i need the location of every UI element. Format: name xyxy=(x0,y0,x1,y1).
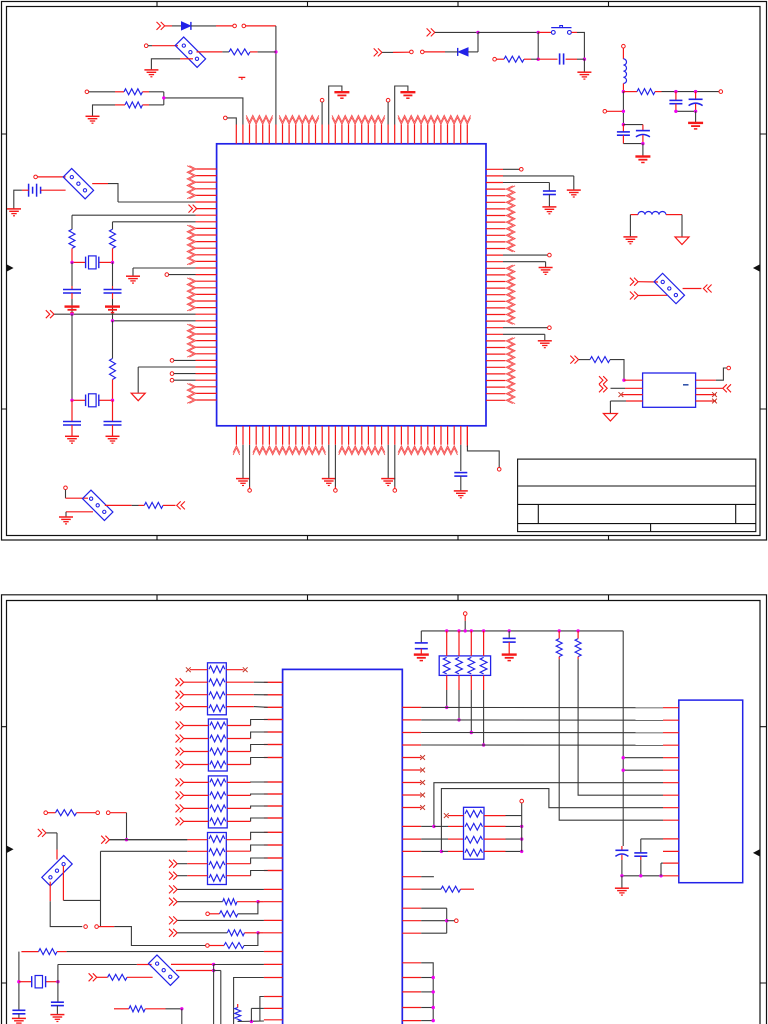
ground G20 xyxy=(59,516,73,518)
capacitor C9 + ground G29 xyxy=(51,1001,64,1003)
RP4 output jog wires xyxy=(226,839,250,841)
port circle P20 (power) xyxy=(463,612,467,616)
U4 pin stubs xyxy=(663,708,679,876)
U2 left pin 4 to triangle ground xyxy=(626,400,643,402)
port circle pair R13 net xyxy=(96,811,100,815)
vertical wire row-851 to J4 net xyxy=(100,851,102,926)
resistor R1 xyxy=(115,91,124,93)
port circle P4 (jumper J1 input) xyxy=(144,44,148,48)
resistor R3 (crystal upper left) xyxy=(71,215,73,229)
port + wire row 889.5 xyxy=(169,885,177,893)
wire + ground G9 U1 right row 2 xyxy=(503,175,574,177)
jumper J2 (tilted) xyxy=(654,273,684,303)
RP5 row1 nc xyxy=(448,815,464,817)
wire row 926.6 to corner xyxy=(99,926,115,928)
junction nodes G,H xyxy=(674,90,677,93)
vertical node C to resistor row xyxy=(537,32,539,59)
port circle on U1 left row 30 xyxy=(170,359,174,363)
wire J5 second lead corner down xyxy=(214,970,221,972)
inductor L2 with grounds (mid right) xyxy=(630,214,638,216)
port circle P8 (inductor L1 top) xyxy=(622,44,626,48)
wire P12 down to J3 xyxy=(65,490,67,499)
jumper J4 (tilted) xyxy=(42,855,72,885)
J4 second lead xyxy=(62,866,64,900)
U2 left pin 2 xyxy=(611,387,626,389)
wire P5 to node B xyxy=(435,31,478,33)
jumper J1 (tilted) xyxy=(175,37,205,67)
resistor R2 xyxy=(115,104,125,106)
jumper J0 (tilted, battery) xyxy=(63,168,93,198)
U3 right stub row 876.7 xyxy=(421,876,434,878)
port circle below U1 (right pair) xyxy=(394,445,396,487)
sheet 2 outer border frame xyxy=(2,595,767,1024)
wire C1-C2 bottoms xyxy=(676,110,696,112)
port circle + resistor R13 row xyxy=(44,811,48,815)
port + resistor R15 row 901.7 xyxy=(169,898,177,906)
vertical wire down to U1 top pin 7 xyxy=(275,26,277,125)
capacitor C18 + ground G24 xyxy=(112,400,114,421)
resistor R19 + long wire row 951.5 xyxy=(21,951,38,953)
wire to C4 branch xyxy=(623,124,643,126)
ground G17 xyxy=(623,236,637,238)
wire J2 to port xyxy=(683,288,702,290)
RP2 output jog wires xyxy=(227,725,250,727)
port P6 chevron (D2 left) xyxy=(374,48,382,56)
wire J0 out to corner xyxy=(92,183,108,185)
triangle ground G19 xyxy=(603,414,617,422)
wire R7 to port circle xyxy=(662,91,720,93)
vertical from R22 down xyxy=(181,1009,183,1024)
wires to connector rows 5-6 xyxy=(623,757,663,759)
ground G21 (thick) xyxy=(65,305,80,307)
crystal Y2 xyxy=(72,399,86,401)
wire R8 elbow down xyxy=(610,360,624,381)
resistor R10 xyxy=(558,631,560,639)
sheet 1 outer border frame xyxy=(2,2,767,541)
port circle (row 945.5) xyxy=(206,944,210,948)
junction node B xyxy=(476,31,479,34)
wire J1 lower terminal to ground xyxy=(180,58,193,60)
resistor R6 xyxy=(496,58,504,60)
ground G16 xyxy=(642,144,644,156)
diode D2 xyxy=(458,48,468,56)
U2 left pin 3 (nc) xyxy=(622,394,643,396)
U2 right pin 4 (nc) xyxy=(696,400,716,402)
port circle pair on D2 net xyxy=(421,50,425,54)
bottom wire row 1021.5 xyxy=(238,1020,264,1023)
J4 lower lead xyxy=(49,882,51,902)
circle + resistor R18 row 945.5 xyxy=(209,945,224,947)
ground G4 below U1 xyxy=(328,445,330,479)
capacitor C3 xyxy=(622,125,624,132)
ground G22 (thick) xyxy=(105,305,120,307)
R11 wire down to connector row xyxy=(578,659,663,795)
U2 right pin 3 (nc) xyxy=(696,394,716,396)
junction node M xyxy=(641,142,644,145)
port circle on U1 left row 33 xyxy=(170,378,174,382)
port + wire row 920.4 xyxy=(169,916,177,924)
title block xyxy=(518,459,756,531)
resistor R4 (crystal upper right) xyxy=(112,222,114,230)
resistor R22 (bottom mid) xyxy=(114,1008,129,1010)
circle + resistor R16 row 913.8 xyxy=(206,912,210,916)
port P21 chevron xyxy=(101,836,109,844)
wire R6 to node E xyxy=(531,58,538,60)
resistor R9 xyxy=(144,502,163,508)
port chevron on U1 left pin row 7 xyxy=(189,205,197,213)
junction crystal Y1 nodes xyxy=(70,261,73,264)
node vertical R1-R2 xyxy=(163,92,165,105)
connector U4 body xyxy=(679,700,743,883)
U3 right nc x-marks xyxy=(420,755,425,760)
capacitor C12 below U1 xyxy=(460,445,462,471)
junction node A xyxy=(162,96,165,99)
junction nodes I,J xyxy=(674,110,677,113)
crystal Y3 xyxy=(19,981,32,983)
sheet 2 inner border frame xyxy=(7,601,761,1024)
wire R1 to node xyxy=(149,91,164,93)
wire to triangle ground row 31 xyxy=(138,366,195,368)
junction node E xyxy=(537,58,540,61)
U3 left row 996.5 corner xyxy=(260,997,264,1022)
port P23 + resistor R20 into J5 xyxy=(89,973,97,981)
wire D2 to port circles xyxy=(445,51,458,53)
U3 right row wires into pack RP5 xyxy=(421,825,434,827)
resistor pack RP6 (pull-ups) xyxy=(439,656,490,676)
port circle U1 right row 1 xyxy=(503,168,520,170)
U1 top pin name text xyxy=(246,118,272,125)
wire from jumper J1b to U1 left pin row 6 xyxy=(118,201,196,203)
port circle P2 (resistor pair input) xyxy=(85,90,89,94)
inductor L1 xyxy=(622,48,624,59)
capacitor C6 + ground G27 xyxy=(508,631,510,638)
J5 right leads to junctions xyxy=(171,963,214,965)
wire J1 to resistor R5 xyxy=(197,51,223,53)
ground G25 xyxy=(7,208,21,210)
capacitor C4 (polarized) xyxy=(642,125,644,131)
resistor pack RP2 xyxy=(208,719,227,771)
regulator U2 body xyxy=(643,373,696,407)
wire C3-C4 bottoms xyxy=(623,143,643,145)
power stub mark xyxy=(239,76,246,78)
junction crystal right xyxy=(56,980,59,983)
resistor R21 vertical (bottom) xyxy=(237,1004,239,1008)
bus rows U3 to connector xyxy=(421,706,663,708)
wire to pushbutton SW1 xyxy=(538,31,551,33)
triangle ground G8 xyxy=(131,393,145,401)
sheet 1 inner border frame xyxy=(7,7,761,536)
wire J3 lower to ground xyxy=(66,511,93,513)
sheet 1 right border arrow marker xyxy=(754,265,760,271)
wire battery to J0 xyxy=(41,189,66,191)
wire to vertical drop (diode net) xyxy=(246,25,276,27)
U1 bottom pin name text xyxy=(233,446,240,453)
port + long wire row 23 (crystal node) xyxy=(46,310,54,318)
ground G13 xyxy=(144,69,158,71)
RP5 right leads to vertical xyxy=(484,815,506,817)
wire up to U4 row 863 xyxy=(660,863,662,876)
resistor pack RP3 xyxy=(208,776,227,828)
vertical B wire jog (row 807.7) xyxy=(441,789,663,852)
port circle on U1 top pin 14 xyxy=(320,98,324,102)
U3 left row 1008.4 wire xyxy=(251,1007,264,1009)
wire J3 to resistor R9 xyxy=(105,504,132,506)
wire P6 to circle xyxy=(382,51,393,53)
RP6 top leads xyxy=(446,631,448,656)
RP6 bottom leads to bus rows xyxy=(446,675,448,690)
RP1 output wires xyxy=(226,681,254,683)
junction node F xyxy=(622,90,625,93)
RP5 vertical + port circle xyxy=(521,816,523,852)
wire from R1/R2 node down to U1 pin 2 xyxy=(164,98,243,125)
capacitor C13 + ground G10 U1 right row 3 xyxy=(503,182,549,184)
bottom wire C7-C8 to U4 xyxy=(622,875,663,877)
wire R13 net corner down xyxy=(110,812,127,814)
wire elbow from U1 last bottom pin to port circle xyxy=(466,426,468,447)
resistor R8 xyxy=(590,357,610,363)
RP3 output jog wires xyxy=(227,781,250,783)
wire P20 down to bus xyxy=(464,615,466,621)
wire junction to U3 row 964.4 xyxy=(214,963,264,965)
wire P11 to resistor R8 xyxy=(579,359,590,361)
port circle U1 right row 14 xyxy=(503,254,548,256)
U1 top pin stubs xyxy=(236,125,467,144)
U1 right pin stubs xyxy=(486,169,505,400)
port chevron out J2 xyxy=(703,285,711,293)
resistor R5 xyxy=(229,49,250,55)
vertical A wire (row 782.7) xyxy=(434,783,663,827)
sheet 2 left border arrow marker xyxy=(7,846,13,852)
ground G6 below C12 xyxy=(460,476,462,491)
RP4 input wires/ports xyxy=(109,839,187,841)
port P5 chevron (switch net) xyxy=(427,28,435,36)
port circle U1 right row 25 xyxy=(503,327,548,329)
port circle pair on D1 net xyxy=(233,24,237,28)
port circle below U1 (left pair) xyxy=(249,445,251,487)
port circle pair (row 926.6) xyxy=(84,925,88,929)
resistor R12 (row 889) xyxy=(421,888,441,890)
wire R5 to diode net xyxy=(258,51,276,53)
U1 left pin stubs xyxy=(196,169,217,400)
U1 right pin name text xyxy=(506,186,513,252)
IC U3 body xyxy=(283,669,403,1024)
ground G7 wire on U1 left xyxy=(133,267,196,269)
U1 bottom pin stubs xyxy=(236,426,467,445)
U3 right pin stubs xyxy=(402,707,421,1020)
triangle ground G18 xyxy=(675,237,689,245)
resistor R7 xyxy=(623,91,637,93)
wire R2 left to ground G12 xyxy=(93,105,116,116)
port circle P13 (battery net) xyxy=(34,175,38,179)
U2 right pin 1 to port circle xyxy=(696,379,716,381)
ground G1 above U1 (left) xyxy=(329,86,342,125)
ground G5 below U1 xyxy=(387,445,389,479)
capacitor C7 (polarized) on bus vertical xyxy=(621,846,623,850)
port circle P10 (left branch) xyxy=(603,110,607,114)
port chevron out R9 xyxy=(177,501,185,509)
wire battery left to ground xyxy=(22,189,29,191)
diode D1 xyxy=(182,22,191,30)
U3 right lower bracket xyxy=(421,963,433,1021)
junction on row 24 xyxy=(111,319,114,322)
junction node D xyxy=(583,58,586,61)
wire R2 right to node xyxy=(149,104,164,106)
capacitor C16 xyxy=(112,262,114,286)
vertical from J5 junction down xyxy=(213,965,215,1024)
U3 left row 977.5 from below xyxy=(234,978,264,1024)
RP3 input ports xyxy=(176,778,184,786)
U1 left pin name text xyxy=(189,166,196,199)
jumper J3 (tilted) xyxy=(82,490,112,520)
capacitor C14 (series) xyxy=(538,58,557,60)
junction node N xyxy=(622,379,625,382)
capacitor C8 xyxy=(641,838,663,840)
ground G14 below node D xyxy=(583,59,585,72)
wire D1 to port circles xyxy=(191,25,216,27)
R10 wire down to connector row xyxy=(559,659,663,820)
wire P21 to RP4 row1 xyxy=(110,839,188,841)
capacitor C10 + ground G30 xyxy=(12,1009,25,1011)
wire + ground G11 U1 right row 15 xyxy=(503,261,546,263)
junction on diode net xyxy=(274,50,277,53)
RP1 row1 nc marks xyxy=(190,669,208,671)
vertical + resistor R4b (lower) xyxy=(112,321,114,359)
wire node B to switch xyxy=(478,31,538,33)
U2 right pin 2 to port xyxy=(696,387,723,389)
port circle on U1 left row 32 xyxy=(170,372,174,376)
capacitor C17 + ground G23 xyxy=(71,400,73,421)
sheet 1 left border arrow marker xyxy=(7,265,13,271)
wire port to diode D1 xyxy=(165,25,172,27)
power bus wire xyxy=(421,630,623,632)
U3 right bracket to port circle xyxy=(421,907,447,909)
ground G15 xyxy=(695,111,697,122)
sheet 1 border zone ticks xyxy=(2,2,767,541)
capacitor C2 (polarized) xyxy=(695,92,697,100)
port circle P7 (R6 input) xyxy=(493,57,497,61)
port chevrons (jumper J2) xyxy=(630,278,638,286)
wire row 964.4 via jumper J5 xyxy=(58,964,137,966)
resistor R11 xyxy=(577,631,579,639)
crystal Y1 xyxy=(72,261,86,263)
vertical crystal right xyxy=(57,964,59,1001)
bus corner vertical down xyxy=(622,631,624,846)
U3 left pin stubs xyxy=(264,682,283,1020)
ground G2 above U1 (right) xyxy=(395,86,408,125)
resistor pack RP4 xyxy=(208,833,227,885)
capacitor C15 xyxy=(71,262,73,286)
wire SW1 to corner xyxy=(572,31,578,33)
sheet 2 border zone ticks xyxy=(2,595,767,983)
ground G28 xyxy=(621,876,623,888)
battery BT1 xyxy=(28,184,30,197)
U2 left pin 1 xyxy=(624,379,643,381)
port circle P9 xyxy=(719,90,723,94)
jumper J5 (tilted) xyxy=(148,955,178,985)
port P22 chevron + wire xyxy=(38,829,46,837)
long wire row 24 (crystal node 2) xyxy=(113,320,196,322)
wire + ground G9b U1 right row 26 xyxy=(503,333,545,335)
RP2 input ports xyxy=(176,722,184,730)
sheet 2 right border arrow marker xyxy=(754,850,760,856)
IC U1 body xyxy=(217,144,486,426)
wire rows to crystal resistors (left) xyxy=(72,214,196,216)
resistor pack RP1 xyxy=(208,663,227,715)
port P11 chevron (regulator net) xyxy=(570,356,578,364)
wires into J2 xyxy=(638,281,658,283)
resistor pack RP5 xyxy=(464,807,485,859)
ground G3 below U1 xyxy=(242,445,244,479)
port P3 chevron (diode input) xyxy=(157,22,165,30)
port circle on U1 top pin 24 xyxy=(386,98,390,102)
bus junction dots xyxy=(445,629,448,632)
port chevrons U2 left xyxy=(599,376,607,384)
vertical node B to diode D2 xyxy=(477,32,479,52)
junction node C xyxy=(537,31,540,34)
vertical node F down xyxy=(622,92,624,125)
RP1 input ports xyxy=(176,678,184,686)
junction nodes K,L xyxy=(622,110,625,113)
junction on port row xyxy=(70,313,73,316)
port circle below U1 (mid pair) xyxy=(334,445,336,487)
pushbutton SW1 xyxy=(551,31,555,35)
junction crystal Y2 nodes xyxy=(70,399,73,402)
port P1 with wire to U1 pin (top left) xyxy=(224,116,228,120)
port + resistor R17 row 932.8 xyxy=(169,929,177,937)
port circle P12 (jumper J3 net) xyxy=(64,486,68,490)
capacitor C5 + ground G26 xyxy=(420,631,422,643)
port circle on U1 left row 17 xyxy=(165,273,169,277)
crystal circuit vertical left xyxy=(18,952,20,1010)
long vertical to lower crystal xyxy=(71,314,73,400)
capacitor C1 xyxy=(675,92,677,101)
